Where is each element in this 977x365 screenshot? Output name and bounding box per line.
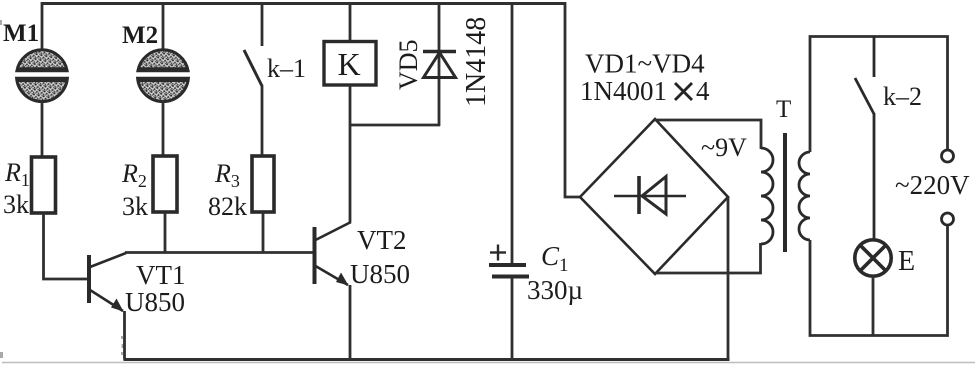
wire k-1 to top rail <box>261 2 264 46</box>
label C1 plus <box>490 245 506 261</box>
svg-text:K: K <box>337 46 360 82</box>
transistor VT2 <box>315 222 352 286</box>
svg-text:k–1: k–1 <box>267 54 306 83</box>
switch k-2 <box>855 36 874 241</box>
svg-text:4: 4 <box>696 76 710 106</box>
svg-text:M2: M2 <box>122 22 158 49</box>
svg-text:~220V: ~220V <box>895 170 970 200</box>
svg-text:E: E <box>898 246 915 277</box>
svg-text:U850: U850 <box>125 287 185 317</box>
wire bridge plus output to top rail <box>565 2 581 197</box>
wire top rail <box>42 2 565 5</box>
wire R1 to VT1 base <box>44 213 88 279</box>
wire k-1 to R3 <box>261 85 264 157</box>
wire VT2 emitter down <box>349 285 352 360</box>
switch k-1 <box>244 50 262 86</box>
bridge rectifier VD1-VD4 <box>580 119 728 274</box>
wire bottom rail <box>124 358 730 361</box>
svg-text:82k: 82k <box>208 192 247 221</box>
svg-text:M1: M1 <box>3 20 39 47</box>
svg-text:VT2: VT2 <box>357 225 407 255</box>
svg-text:3k: 3k <box>3 190 29 219</box>
svg-text:~9V: ~9V <box>701 133 747 162</box>
capacitor C1 <box>489 265 529 277</box>
transformer T secondary winding <box>761 148 773 244</box>
transistor VT1 <box>89 253 126 312</box>
wire lamp to bottom frame <box>872 276 875 336</box>
wire M2 to R2 <box>162 100 165 157</box>
wire bridge minus output down <box>727 197 730 360</box>
transformer T core <box>783 133 787 252</box>
wire lamp loop frame <box>810 37 948 336</box>
diode VD5 <box>423 2 456 126</box>
wire M1 to R1 <box>41 100 44 158</box>
wire R2 to collector bus <box>164 212 167 253</box>
wire VT1 collector bus <box>125 251 314 254</box>
svg-text:330µ: 330µ <box>527 275 583 305</box>
resistor R3 <box>252 156 274 212</box>
svg-text:k–2: k–2 <box>883 82 922 111</box>
wire C1 to top rail <box>511 2 514 264</box>
microphone M2 <box>138 50 189 102</box>
wire M1 to top rail <box>41 2 44 53</box>
microphone M1 <box>17 50 68 102</box>
wire K to VT2 collector <box>349 85 352 222</box>
resistor R2 <box>153 156 177 212</box>
terminal lower <box>942 213 954 225</box>
svg-text:U850: U850 <box>350 259 410 289</box>
svg-text:T: T <box>776 96 791 123</box>
terminal upper <box>942 150 954 162</box>
lamp E <box>855 240 891 276</box>
wire R3 to collector bus <box>262 212 265 253</box>
transformer T primary winding <box>799 152 810 240</box>
svg-text:1N4148: 1N4148 <box>461 17 492 107</box>
wire K node to VD5 anode <box>349 124 440 127</box>
svg-text:3k: 3k <box>122 192 148 221</box>
svg-text:VD1~VD4: VD1~VD4 <box>585 49 705 79</box>
wire K coil to top rail <box>349 2 352 42</box>
svg-text:1N4001: 1N4001 <box>580 76 667 106</box>
wire VT1 emitter down <box>123 311 126 360</box>
wire C1 to bottom rail <box>511 277 514 360</box>
wire bridge AC bottom to transformer secondary bottom <box>656 243 761 273</box>
svg-text:VD5: VD5 <box>394 39 423 90</box>
wire bridge AC top to transformer secondary top <box>654 120 761 149</box>
resistor R1 <box>32 157 56 213</box>
svg-text:VT1: VT1 <box>136 260 186 290</box>
relay K <box>324 42 376 86</box>
wire M2 to top rail <box>162 2 165 53</box>
